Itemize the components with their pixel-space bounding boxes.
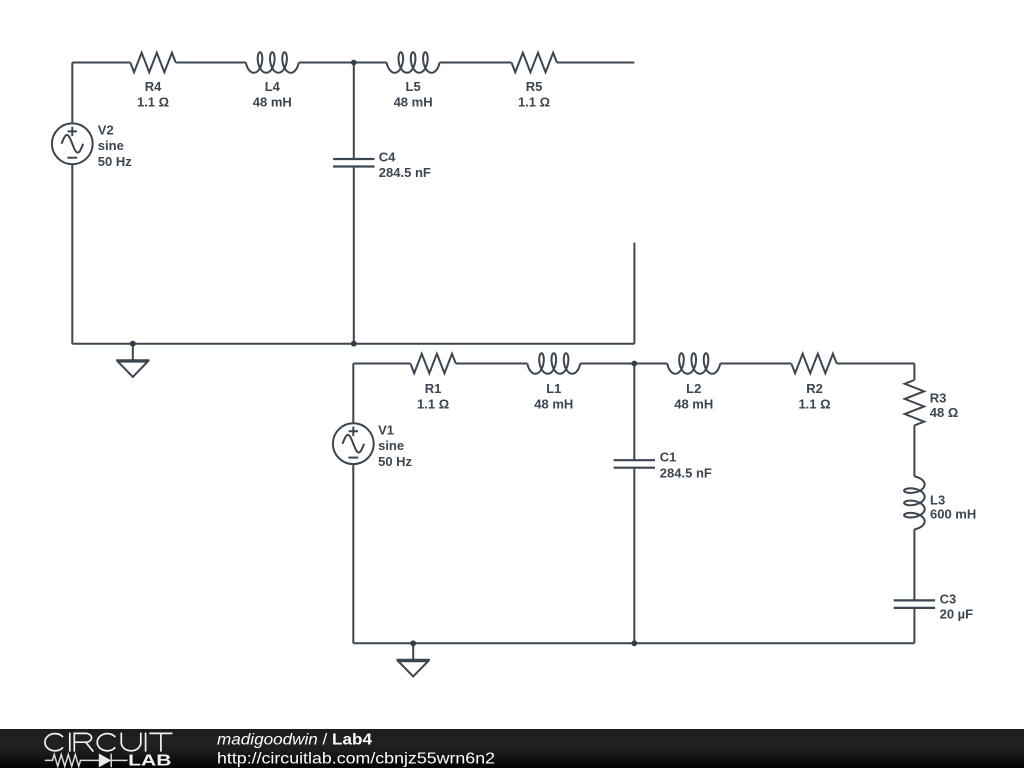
svg-text:C3: C3 [940,591,957,606]
svg-text:48 mH: 48 mH [534,397,573,412]
svg-text:20 µF: 20 µF [940,607,974,622]
svg-text:48 mH: 48 mH [253,95,292,110]
svg-text:1.1 Ω: 1.1 Ω [518,95,550,110]
svg-text:R4: R4 [145,79,162,94]
svg-text:L2: L2 [686,381,701,396]
svg-text:V1: V1 [378,422,394,437]
svg-text:R3: R3 [930,391,947,406]
svg-text:L5: L5 [406,79,421,94]
svg-text:50 Hz: 50 Hz [98,154,132,169]
svg-text:50 Hz: 50 Hz [378,454,412,469]
svg-text:L1: L1 [546,381,561,396]
svg-text:1.1 Ω: 1.1 Ω [417,397,449,412]
svg-text:48 mH: 48 mH [674,397,713,412]
svg-text:C4: C4 [379,150,396,165]
svg-text:L4: L4 [265,79,281,94]
svg-text:R1: R1 [425,381,442,396]
svg-text:sine: sine [378,438,404,453]
svg-text:madigoodwin / Lab4: madigoodwin / Lab4 [217,732,372,749]
svg-text:L3: L3 [930,492,945,507]
svg-text:284.5 nF: 284.5 nF [660,465,712,480]
svg-text:284.5 nF: 284.5 nF [379,165,431,180]
svg-text:1.1 Ω: 1.1 Ω [798,397,830,412]
svg-text:1.1 Ω: 1.1 Ω [137,95,169,110]
svg-text:LAB: LAB [128,753,171,768]
svg-text:R5: R5 [526,79,543,94]
svg-text:C1: C1 [660,450,677,465]
svg-text:http://circuitlab.com/cbnjz55w: http://circuitlab.com/cbnjz55wrn6n2 [217,751,495,768]
svg-text:600 mH: 600 mH [930,507,976,522]
svg-text:sine: sine [98,138,124,153]
svg-text:V2: V2 [98,122,114,137]
svg-text:48 mH: 48 mH [394,95,433,110]
svg-text:R2: R2 [806,381,823,396]
svg-text:48 Ω: 48 Ω [930,405,959,420]
